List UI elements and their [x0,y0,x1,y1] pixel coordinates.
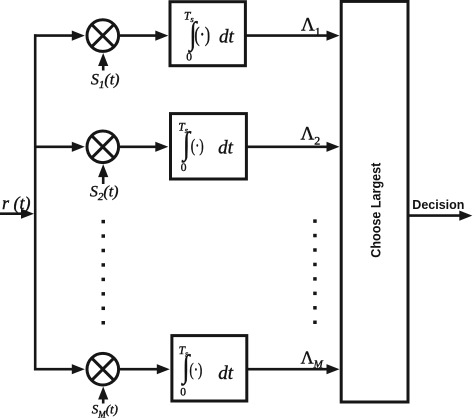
svg-text:dt: dt [218,363,234,384]
wire: branch to multiplier 2 [34,142,85,152]
integrator 2 contents: upper limit Ts, integral, (dot), dt, lower limit 0 [178,122,233,174]
svg-text:ΛM: ΛM [301,348,324,371]
label r(t) [2,193,31,214]
integrator M contents: upper limit Ts, integral, (dot), dt, lower limit 0 [179,345,234,399]
label Choose Largest (vertical) [367,162,383,257]
svg-text:(·): (·) [194,23,210,47]
wire: integrator 2 to decision block, labelled Lambda_2 [247,142,340,152]
node: input bus vertical line [34,34,37,370]
svg-text:Choose Largest: Choose Largest [367,162,383,257]
svg-text:dt: dt [218,138,234,159]
wire: integrator M to decision block, labelled Lambda_M [247,364,340,374]
decision block: Choose Largest [341,1,408,402]
integrator box 1 [170,2,245,66]
wire: S1(t) arrow into multiplier 1 [98,53,108,71]
wire: SM(t) arrow into multiplier M [98,387,108,404]
integrator box M [172,336,247,401]
wire: output Decision arrow [408,211,472,221]
label Lambda_2 [301,123,321,147]
label S1(t) [91,71,120,91]
label S2(t) [90,183,119,203]
wire: integrator 1 to decision block, labelled Lambda_1 [246,31,340,41]
svg-text:0: 0 [180,387,186,399]
svg-text:Λ1: Λ1 [301,14,321,38]
integrator box 2 [171,114,247,179]
svg-text:r (t): r (t) [2,193,31,214]
svg-text:Λ2: Λ2 [301,123,321,147]
wire: multiplier M to integrator M [120,364,170,374]
svg-text:S2(t): S2(t) [90,183,119,203]
label SM(t) [92,401,118,418]
multiplier X2 (circle with X) [87,131,119,163]
wire: input r(t) arrow [0,209,34,219]
svg-text:Decision: Decision [412,198,464,212]
wire: S2(t) arrow into multiplier 2 [98,164,108,184]
svg-text:0: 0 [181,162,187,174]
label Lambda_1 [301,14,321,38]
svg-text:(·): (·) [191,136,204,156]
wire: multiplier 2 to integrator 2 [120,142,168,152]
multiplier X1 (circle with X) [87,20,119,52]
wire: multiplier 1 to integrator 1 [120,31,168,41]
svg-text:(·): (·) [189,360,202,380]
label Decision [412,198,464,212]
svg-text:SM(t): SM(t) [92,401,118,418]
label Lambda_M [301,348,324,371]
integrator 1 contents: upper limit Ts, integral, (dot), dt, lower limit 0 [184,10,235,63]
svg-text:dt: dt [219,27,235,48]
multiplier XM (circle with X) [87,353,119,385]
dotted ellipsis column left [102,220,106,325]
svg-text:0: 0 [186,52,192,64]
wire: branch to multiplier M [34,364,85,374]
dotted ellipsis column right [313,219,317,324]
wire: branch to multiplier 1 [34,31,85,41]
svg-text:S1(t): S1(t) [91,71,120,91]
